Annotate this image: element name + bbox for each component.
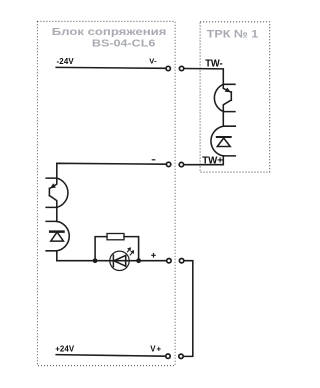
svg-text:Блок сопряжения: Блок сопряжения <box>52 27 167 38</box>
svg-text:+24V: +24V <box>55 345 75 354</box>
svg-text:ТРК № 1: ТРК № 1 <box>207 29 259 41</box>
svg-text:-24V: -24V <box>57 57 75 66</box>
svg-text:V-: V- <box>149 57 157 66</box>
svg-text:BS-04-CL6: BS-04-CL6 <box>92 38 156 50</box>
svg-text:V+: V+ <box>150 345 161 354</box>
